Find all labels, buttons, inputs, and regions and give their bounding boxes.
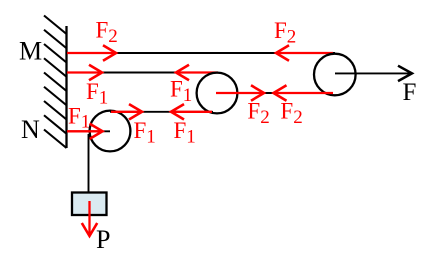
svg-text:F2: F2 (280, 99, 302, 128)
label F2 (rope 1 left) (96, 18, 118, 47)
wall vertical line (65, 26, 67, 148)
hanging string (small pulley to block) (88, 134, 90, 192)
label P (96, 225, 110, 253)
svg-text:F: F (403, 79, 417, 106)
label F1 (rope 3 right) (174, 118, 196, 147)
svg-text:F2: F2 (274, 18, 296, 47)
pull line with force F (right pulley axle to right) (335, 66, 412, 81)
svg-text:F2: F2 (247, 99, 269, 128)
label F (403, 79, 417, 106)
label N (21, 115, 40, 144)
wall hatching (44, 16, 67, 149)
force arrow P (weight, pointing down) (82, 201, 97, 236)
svg-text:F2: F2 (96, 18, 118, 47)
force arrow F1 on rope 2 right (pointing left) (176, 65, 218, 80)
svg-text:F1: F1 (86, 79, 108, 108)
label F1 (rope 3 left) (134, 118, 156, 147)
axle rope (middle pulley center to right pulley bottom) (216, 92, 333, 94)
label F1 (rope 2 right) (170, 77, 192, 106)
force arrow F1 on rope 3 right (pointing left) (171, 104, 212, 119)
label F1 (rope 4) (68, 103, 90, 132)
label M (19, 37, 42, 66)
svg-text:M: M (19, 37, 42, 66)
label F1 (rope 2 left) (86, 79, 108, 108)
svg-text:P: P (96, 225, 110, 253)
label F2 (axle rope left) (247, 99, 269, 128)
force arrow F1 on rope 2 left (pointing right) (67, 65, 102, 80)
force arrow F2 on rope 1 right (pointing left) (276, 45, 333, 60)
rope 4 (wall to small pulley axle) (67, 130, 110, 132)
svg-text:F1: F1 (174, 118, 196, 147)
svg-text:N: N (21, 115, 40, 144)
rope 3 (small pulley top to middle pulley bottom) (110, 111, 213, 113)
rope 2 (wall to middle pulley top) (67, 72, 217, 74)
force arrow F1 on rope 3 left (pointing right) (111, 104, 142, 119)
svg-text:F1: F1 (134, 118, 156, 147)
force arrow F2 on axle rope left (pointing right) (216, 85, 264, 100)
svg-text:F1: F1 (68, 103, 90, 132)
block (weight) (72, 193, 107, 216)
label F2 (rope 1 right) (274, 18, 296, 47)
force arrow F2 on rope 1 left (pointing right) (67, 45, 116, 60)
rope 1 (top rope, wall to right pulley) (67, 52, 335, 54)
force arrow F1 on rope 4 (pointing right) (67, 124, 103, 139)
force arrow F2 on axle rope right (pointing left) (274, 85, 334, 100)
right pulley (314, 54, 356, 96)
middle pulley (197, 73, 238, 114)
svg-text:F1: F1 (170, 77, 192, 106)
label F2 (axle rope right) (280, 99, 302, 128)
small pulley at N (90, 111, 131, 152)
